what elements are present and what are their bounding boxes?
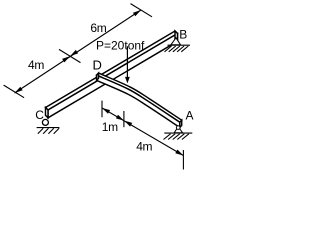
svg-text:P=20tonf: P=20tonf xyxy=(96,39,145,53)
svg-text:1m: 1m xyxy=(102,120,118,134)
dimension tick at D projection xyxy=(59,49,81,62)
load P arrow line xyxy=(126,46,128,78)
dimension tick at B projection xyxy=(131,4,153,17)
dimension tick at C projection xyxy=(4,85,25,98)
support C roller circle xyxy=(42,119,48,125)
svg-text:6m: 6m xyxy=(90,21,106,35)
arrowheads 6m segment xyxy=(70,50,78,56)
arrowheads 4m segment xyxy=(15,87,23,93)
svg-text:4m: 4m xyxy=(28,58,44,72)
support A ground line xyxy=(164,132,192,134)
beam D-A front face xyxy=(97,75,180,127)
support B pin triangle xyxy=(171,38,181,45)
beam C-B front face xyxy=(48,34,178,118)
support A ground hatching xyxy=(164,134,189,140)
beam C-B top face xyxy=(46,31,178,110)
support C ground line xyxy=(37,127,60,129)
svg-text:C: C xyxy=(35,108,44,122)
dimension line 4m-6m main xyxy=(15,10,141,93)
extension line below load point xyxy=(123,111,125,127)
beam D-A end face at A xyxy=(180,120,182,127)
support A pin triangle xyxy=(174,127,182,133)
extension line below D xyxy=(101,101,103,118)
support C ground hatching xyxy=(38,128,59,134)
load P arrowhead xyxy=(125,77,130,84)
svg-text:A: A xyxy=(186,109,194,123)
arrowheads 4m bottom segment xyxy=(124,121,132,127)
support A pin circle xyxy=(176,126,180,130)
extension line below A xyxy=(182,150,184,170)
beam D-A end face at D xyxy=(97,73,99,80)
support B ground line xyxy=(168,44,191,46)
beam C-B end face at B xyxy=(175,31,178,41)
beam D-A top face xyxy=(97,73,182,122)
svg-text:B: B xyxy=(179,28,187,42)
arrowheads 1m segment xyxy=(102,108,110,114)
svg-text:D: D xyxy=(93,58,102,73)
svg-text:4m: 4m xyxy=(136,139,152,153)
dimension line 1m-4m main xyxy=(102,108,183,156)
beam C-B end face at C xyxy=(46,108,49,118)
support B ground hatching xyxy=(165,46,189,52)
